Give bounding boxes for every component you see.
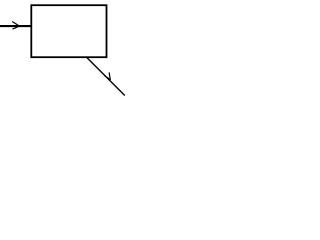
- output arrowhead: [105, 73, 111, 80]
- output wire: [86, 57, 125, 96]
- input wire: [0, 25, 32, 27]
- process box: [31, 5, 106, 57]
- input arrowhead: [13, 22, 20, 29]
